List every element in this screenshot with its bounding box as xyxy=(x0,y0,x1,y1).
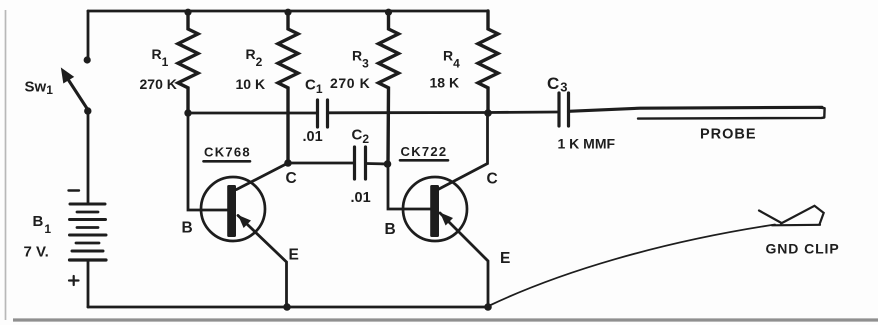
node switch bottom contact xyxy=(84,107,91,114)
transistor Q1 CK768 xyxy=(201,177,265,241)
svg-text:C2: C2 xyxy=(352,127,370,147)
ground clip symbol xyxy=(772,224,820,227)
svg-text:B1: B1 xyxy=(33,213,52,236)
wire top supply rail xyxy=(88,10,488,13)
resistor R4 xyxy=(478,11,498,113)
svg-text:E: E xyxy=(289,247,299,264)
node Q2 emitter / ground clip junction xyxy=(484,303,492,311)
capacitor C1 xyxy=(316,100,319,127)
svg-text:R1: R1 xyxy=(152,46,169,69)
wire bottom ground rail xyxy=(88,306,488,309)
svg-text:CK768: CK768 xyxy=(204,145,251,160)
svg-text:PROBE: PROBE xyxy=(700,127,757,143)
svg-text:18 K: 18 K xyxy=(430,75,460,91)
svg-text:C: C xyxy=(487,171,498,188)
underline CK768 xyxy=(204,160,251,163)
wire R1 bottom down to Q1 base xyxy=(188,113,228,210)
node switch top contact xyxy=(84,56,91,63)
svg-text:R2: R2 xyxy=(246,46,263,69)
battery B1 plates xyxy=(70,203,105,206)
underline CK722 xyxy=(400,159,448,162)
svg-text:B: B xyxy=(182,220,193,237)
node R4 bottom / Q2 collector net xyxy=(484,109,492,117)
node Q1 collector junction xyxy=(284,159,292,167)
wire battery to bottom rail xyxy=(87,260,90,307)
node Q1 emitter at rail xyxy=(283,303,291,311)
transistor Q2 CK722 xyxy=(403,177,467,241)
wire switch to battery xyxy=(87,111,90,202)
svg-text:.01: .01 xyxy=(351,190,371,206)
svg-text:C3: C3 xyxy=(547,74,568,95)
wire base net Q1: R1 bottom to C1 left xyxy=(188,112,317,115)
wire R4 node to C3 xyxy=(488,111,557,114)
svg-text:GND CLIP: GND CLIP xyxy=(766,241,840,257)
svg-text:7 V.: 7 V. xyxy=(24,244,49,261)
capacitor C2 xyxy=(353,147,356,179)
scan artifact: bottom band xyxy=(13,318,878,321)
resistor R1 xyxy=(184,9,191,16)
switch Sw1 arm xyxy=(68,79,89,111)
capacitor C3 xyxy=(557,93,560,126)
svg-text:R3: R3 xyxy=(352,48,369,71)
wire switch top lead xyxy=(87,11,90,59)
svg-text:C1: C1 xyxy=(305,77,323,97)
svg-text:Sw1: Sw1 xyxy=(25,79,54,98)
svg-text:10 K: 10 K xyxy=(236,76,266,92)
svg-text:1 K MMF: 1 K MMF xyxy=(558,136,616,152)
svg-text:270 K: 270 K xyxy=(140,76,177,92)
svg-text:CK722: CK722 xyxy=(401,144,448,159)
svg-text:B: B xyxy=(385,221,396,238)
wire C3 to probe xyxy=(569,107,823,111)
svg-text:C: C xyxy=(286,170,297,187)
resistor R3 xyxy=(385,9,392,16)
resistor R2 xyxy=(284,9,291,16)
node Q2 base junction xyxy=(384,160,392,168)
wire C2 right to Q2 base node xyxy=(366,162,388,165)
wire Q2 base node down to base lead xyxy=(388,164,431,209)
node R1 bottom xyxy=(184,109,191,116)
svg-text:R4: R4 xyxy=(443,48,460,71)
wire C1 right to R4 bottom node (crosses R3, no dot) xyxy=(328,111,488,114)
wire ground clip curve xyxy=(489,225,776,307)
scan artifact: left edge line xyxy=(5,10,7,320)
wire Q1 collector node to C2 left xyxy=(288,162,354,165)
svg-text:E: E xyxy=(500,250,510,267)
svg-text:270 K: 270 K xyxy=(330,75,370,91)
probe body outline xyxy=(638,108,825,119)
battery plus sign xyxy=(69,276,79,285)
battery minus sign xyxy=(69,189,80,191)
svg-text:.01: .01 xyxy=(303,129,323,145)
